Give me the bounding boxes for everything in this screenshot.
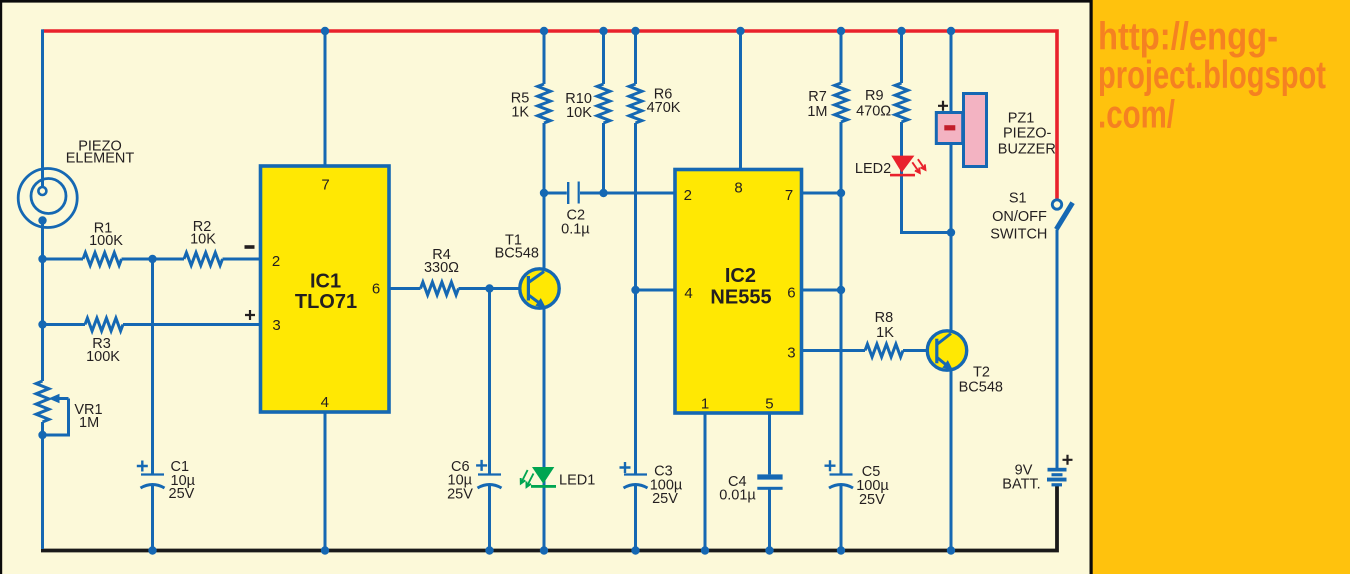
svg-text:1: 1 — [701, 396, 709, 413]
svg-text:R9: R9 — [865, 88, 884, 104]
svg-text:IC1: IC1 — [310, 271, 341, 293]
svg-text:LED1: LED1 — [559, 472, 595, 488]
svg-text:5: 5 — [765, 396, 773, 413]
svg-text:8: 8 — [734, 179, 742, 196]
svg-text:BC548: BC548 — [495, 245, 539, 261]
svg-text:0.1µ: 0.1µ — [561, 222, 590, 238]
svg-text:1K: 1K — [876, 325, 894, 341]
svg-text:6: 6 — [787, 284, 795, 301]
svg-text:25V: 25V — [652, 491, 678, 507]
svg-text:25V: 25V — [169, 486, 195, 502]
svg-text:3: 3 — [272, 317, 280, 334]
svg-text:2: 2 — [684, 187, 692, 204]
svg-text:1M: 1M — [807, 104, 827, 120]
svg-text:.com/: .com/ — [1098, 94, 1175, 137]
svg-text:0.01µ: 0.01µ — [719, 488, 756, 504]
svg-text:IC2: IC2 — [725, 265, 756, 287]
svg-text:3: 3 — [787, 344, 795, 361]
svg-text:ON/OFF: ON/OFF — [992, 209, 1047, 225]
svg-text:25V: 25V — [859, 492, 885, 508]
svg-text:10K: 10K — [190, 231, 216, 247]
svg-text:330Ω: 330Ω — [424, 260, 459, 276]
svg-text:BATT.: BATT. — [1002, 476, 1040, 492]
svg-text:6: 6 — [372, 281, 380, 298]
svg-text:R7: R7 — [808, 89, 827, 105]
svg-text:25V: 25V — [447, 487, 473, 503]
svg-text:7: 7 — [785, 187, 793, 204]
svg-text:4: 4 — [684, 285, 692, 302]
svg-text:PZ1: PZ1 — [1008, 110, 1035, 126]
svg-text:100K: 100K — [86, 349, 120, 365]
svg-text:http://engg-: http://engg- — [1098, 16, 1278, 59]
svg-text:4: 4 — [321, 394, 329, 411]
svg-text:2: 2 — [272, 253, 280, 270]
svg-text:7: 7 — [321, 177, 329, 194]
svg-text:470Ω: 470Ω — [856, 104, 891, 120]
svg-text:PIEZO-: PIEZO- — [1003, 126, 1052, 142]
svg-text:T2: T2 — [973, 365, 990, 381]
svg-text:10K: 10K — [566, 105, 592, 121]
svg-text:R8: R8 — [875, 310, 894, 326]
svg-text:470K: 470K — [647, 100, 681, 116]
svg-text:SWITCH: SWITCH — [990, 227, 1047, 243]
svg-text:project.blogspot: project.blogspot — [1098, 54, 1326, 97]
svg-text:1M: 1M — [79, 415, 99, 431]
svg-text:ELEMENT: ELEMENT — [66, 151, 135, 167]
svg-text:TLO71: TLO71 — [295, 291, 357, 313]
svg-text:100K: 100K — [89, 233, 123, 249]
svg-text:BC548: BC548 — [959, 379, 1003, 395]
svg-text:1K: 1K — [511, 105, 529, 121]
svg-text:NE555: NE555 — [710, 287, 771, 309]
svg-text:BUZZER: BUZZER — [998, 142, 1056, 158]
svg-text:LED2: LED2 — [855, 161, 891, 177]
svg-text:S1: S1 — [1009, 190, 1027, 206]
